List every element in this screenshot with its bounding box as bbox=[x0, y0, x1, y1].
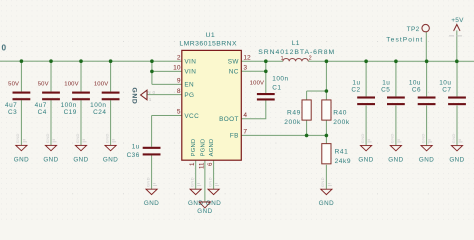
svg-text:10: 10 bbox=[173, 65, 181, 72]
svg-text:C6: C6 bbox=[412, 86, 421, 93]
svg-text:EN: EN bbox=[184, 82, 194, 89]
svg-text:100V: 100V bbox=[64, 81, 79, 87]
svg-text:R41: R41 bbox=[335, 148, 349, 155]
svg-text:100n: 100n bbox=[272, 76, 288, 83]
svg-text:VIN: VIN bbox=[184, 59, 196, 66]
svg-text:10u: 10u bbox=[409, 79, 421, 86]
svg-text:N 0: N 0 bbox=[147, 90, 155, 95]
svg-text:C19: C19 bbox=[64, 109, 77, 116]
svg-text:PG: PG bbox=[184, 92, 194, 99]
svg-text:C24: C24 bbox=[93, 109, 106, 116]
svg-text:SW: SW bbox=[228, 58, 240, 65]
svg-text:4u7: 4u7 bbox=[5, 102, 17, 109]
svg-text:+5V: +5V bbox=[451, 17, 464, 24]
svg-text:3: 3 bbox=[243, 65, 247, 72]
svg-text:12: 12 bbox=[243, 54, 251, 61]
svg-text:100n: 100n bbox=[90, 102, 106, 109]
svg-text:4: 4 bbox=[243, 112, 247, 119]
svg-text:1u: 1u bbox=[382, 79, 390, 86]
svg-text:C4: C4 bbox=[38, 109, 47, 116]
svg-text:U1: U1 bbox=[206, 32, 216, 39]
svg-text:10u: 10u bbox=[439, 79, 451, 86]
svg-text:100n: 100n bbox=[61, 102, 77, 109]
svg-text:C7: C7 bbox=[442, 86, 451, 93]
svg-text:100V: 100V bbox=[94, 81, 109, 87]
svg-text:C5: C5 bbox=[381, 86, 390, 93]
svg-text:1: 1 bbox=[149, 97, 152, 102]
svg-text:TestPoint: TestPoint bbox=[386, 37, 423, 44]
svg-text:C3: C3 bbox=[8, 109, 17, 116]
svg-text:8: 8 bbox=[177, 88, 181, 95]
svg-text:R49: R49 bbox=[287, 110, 301, 117]
svg-text:FB: FB bbox=[230, 133, 239, 140]
svg-text:C36: C36 bbox=[127, 152, 140, 159]
svg-text:4u7: 4u7 bbox=[35, 102, 47, 109]
svg-text:5: 5 bbox=[177, 109, 181, 116]
svg-text:VIN: VIN bbox=[184, 69, 196, 76]
svg-text:6: 6 bbox=[207, 162, 214, 166]
svg-text:VCC: VCC bbox=[184, 113, 199, 120]
svg-text:1: 1 bbox=[281, 56, 284, 62]
svg-text:200k: 200k bbox=[333, 119, 350, 126]
svg-text:NC: NC bbox=[229, 69, 239, 76]
svg-text:50V: 50V bbox=[38, 81, 49, 87]
svg-text:2: 2 bbox=[309, 56, 312, 62]
svg-text:100V: 100V bbox=[250, 81, 265, 87]
svg-text:2: 2 bbox=[177, 54, 181, 61]
svg-text:0: 0 bbox=[2, 44, 7, 53]
svg-text:200k: 200k bbox=[284, 119, 301, 126]
svg-text:PGND: PGND bbox=[191, 139, 197, 157]
svg-text:C2: C2 bbox=[351, 86, 360, 93]
svg-text:R40: R40 bbox=[333, 110, 347, 117]
svg-text:1u: 1u bbox=[352, 79, 360, 86]
svg-text:7: 7 bbox=[243, 129, 247, 136]
svg-text:LMR36015BRNX: LMR36015BRNX bbox=[179, 40, 237, 47]
svg-text:9: 9 bbox=[177, 78, 181, 85]
svg-text:11: 11 bbox=[198, 162, 205, 169]
svg-text:C1: C1 bbox=[272, 85, 281, 92]
svg-text:SRN4012BTA-6R8M: SRN4012BTA-6R8M bbox=[258, 49, 335, 56]
svg-text:GND: GND bbox=[197, 208, 212, 215]
svg-text:TP2: TP2 bbox=[407, 26, 420, 33]
svg-text:PGND: PGND bbox=[200, 139, 206, 157]
svg-text:BOOT: BOOT bbox=[219, 116, 239, 123]
svg-text:GND: GND bbox=[131, 88, 138, 105]
svg-text:1: 1 bbox=[189, 162, 196, 166]
svg-text:24k9: 24k9 bbox=[335, 158, 352, 165]
svg-text:50V: 50V bbox=[8, 81, 19, 87]
svg-text:1u: 1u bbox=[132, 143, 140, 150]
svg-text:AGND: AGND bbox=[209, 139, 215, 157]
svg-text:L1: L1 bbox=[292, 40, 300, 47]
